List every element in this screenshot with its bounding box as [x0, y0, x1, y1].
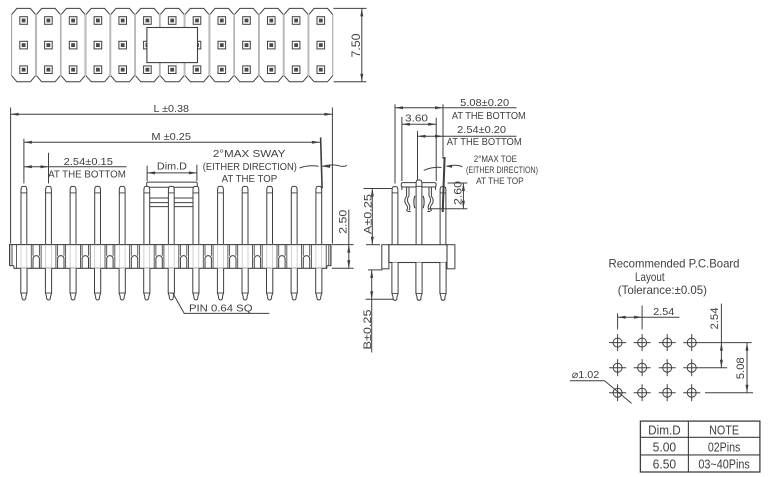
- front view: jumper contact lines between pins 6-7 and 7-8: [150, 198, 193, 207]
- svg-text:Dim.D: Dim.D: [648, 423, 681, 438]
- dimension 2.54 vertical (hole row pitch): [700, 304, 752, 368]
- side view: jumper cap (cross-section): [401, 183, 436, 187]
- dimension M ±0.25 (pin span): [24, 131, 320, 184]
- svg-text:3.60: 3.60: [405, 112, 428, 124]
- svg-text:5.08±0.20: 5.08±0.20: [460, 97, 509, 109]
- dimension A±0.25 (pin length above body): [362, 189, 391, 245]
- svg-text:2.60: 2.60: [452, 181, 464, 205]
- svg-text:2.54±0.20: 2.54±0.20: [457, 124, 506, 136]
- svg-text:2.54: 2.54: [709, 308, 721, 330]
- svg-text:2°MAX SWAY: 2°MAX SWAY: [213, 148, 286, 160]
- dimension 3.60 (jumper cap width, side): [402, 112, 436, 181]
- svg-text:02Pins: 02Pins: [708, 440, 741, 455]
- notes table: [640, 421, 760, 472]
- top view: header body segments: [12, 8, 333, 81]
- leader PIN 0.64 SQ: [173, 293, 269, 314]
- svg-text:Recommended P.C.Board: Recommended P.C.Board: [609, 257, 740, 271]
- note 2 deg MAX TOE (EITHER DIRECTION) AT THE TOP: [424, 154, 538, 187]
- side view: 3 upper pins: [392, 180, 446, 245]
- dimension 5.08±0.20 AT THE BOTTOM (outer pin span, side): [395, 97, 526, 184]
- front view: 13 upper pins: [21, 186, 322, 244]
- top view: jumper shunt outline (plan): [147, 28, 198, 63]
- PCB layout title: [609, 257, 740, 298]
- svg-text:5.00: 5.00: [653, 440, 677, 455]
- note 2 deg MAX SWAY (EITHER DIRECTION) AT THE TOP: [203, 148, 347, 185]
- svg-text:2.54: 2.54: [653, 306, 674, 318]
- dimension 7.50 (top view height): [334, 8, 367, 81]
- top view: gaps between segments: [35, 13, 309, 76]
- svg-text:03~40Pins: 03~40Pins: [698, 457, 750, 472]
- svg-text:L ±0.38: L ±0.38: [154, 103, 190, 115]
- svg-text:AT THE TOP: AT THE TOP: [222, 173, 278, 185]
- front view: tilted pin (2 deg sway): [321, 137, 323, 188]
- svg-text:NOTE: NOTE: [709, 423, 739, 438]
- dimension 5.08 vertical (hole span): [705, 343, 753, 393]
- dimension 2.54±0.20 AT THE BOTTOM (pin pitch, side): [418, 124, 522, 181]
- svg-text:PIN 0.64 SQ: PIN 0.64 SQ: [189, 302, 253, 314]
- top view: pin squares grid (3 rows x 13 cols): [20, 17, 325, 74]
- front view: insulator band: [9, 245, 332, 270]
- svg-text:7.50: 7.50: [349, 33, 363, 57]
- side view: tilted pin (2 deg toe): [443, 157, 445, 212]
- svg-text:2°MAX TOE: 2°MAX TOE: [474, 154, 517, 165]
- svg-text:AT THE BOTTOM: AT THE BOTTOM: [447, 136, 522, 148]
- svg-text:Layout: Layout: [635, 270, 665, 284]
- svg-text:Dim.D: Dim.D: [157, 160, 187, 172]
- svg-text:(Tolerance:±0.05): (Tolerance:±0.05): [618, 283, 707, 297]
- side view: insulator body with side tabs: [382, 245, 455, 269]
- dimension 2.60 (contact depth): [429, 181, 467, 209]
- svg-text:2.54±0.15: 2.54±0.15: [64, 156, 113, 168]
- svg-text:6.50: 6.50: [653, 457, 677, 472]
- svg-text:(EITHER DIRECTION): (EITHER DIRECTION): [466, 165, 538, 176]
- svg-text:AT THE TOP: AT THE TOP: [476, 176, 524, 187]
- svg-text:A±0.25: A±0.25: [362, 194, 374, 234]
- svg-text:B±0.25: B±0.25: [362, 310, 374, 350]
- svg-text:2.50: 2.50: [338, 210, 350, 234]
- dimension 2.54 horizontal (hole pitch): [618, 306, 680, 330]
- dimension 2.50 (insulator height): [332, 210, 354, 269]
- front view: jumper cap bar: [147, 182, 198, 187]
- PCB layout: hole pattern 4x3: [609, 334, 700, 401]
- svg-text:AT THE BOTTOM: AT THE BOTTOM: [452, 110, 526, 122]
- front view: 13 lower pins: [21, 268, 322, 300]
- dimension B±0.25 (pin length below body): [362, 270, 394, 353]
- dimension Dim.D (jumper width): [147, 160, 197, 181]
- side view: jumper contact prongs with hooks: [402, 187, 436, 212]
- svg-text:5.08: 5.08: [735, 357, 747, 379]
- leader diameter 1.02 (hole size): [570, 369, 632, 404]
- dimension 2.54±0.15 AT THE BOTTOM (pin pitch): [24, 153, 127, 184]
- svg-text:M ±0.25: M ±0.25: [151, 131, 191, 143]
- side view: 3 lower pins: [392, 263, 446, 301]
- svg-text:AT THE BOTTOM: AT THE BOTTOM: [48, 168, 126, 180]
- svg-text:⌀1.02: ⌀1.02: [572, 369, 600, 381]
- dimension L ±0.38 (overall length): [11, 103, 333, 243]
- svg-text:(EITHER DIRECTION): (EITHER DIRECTION): [203, 161, 297, 173]
